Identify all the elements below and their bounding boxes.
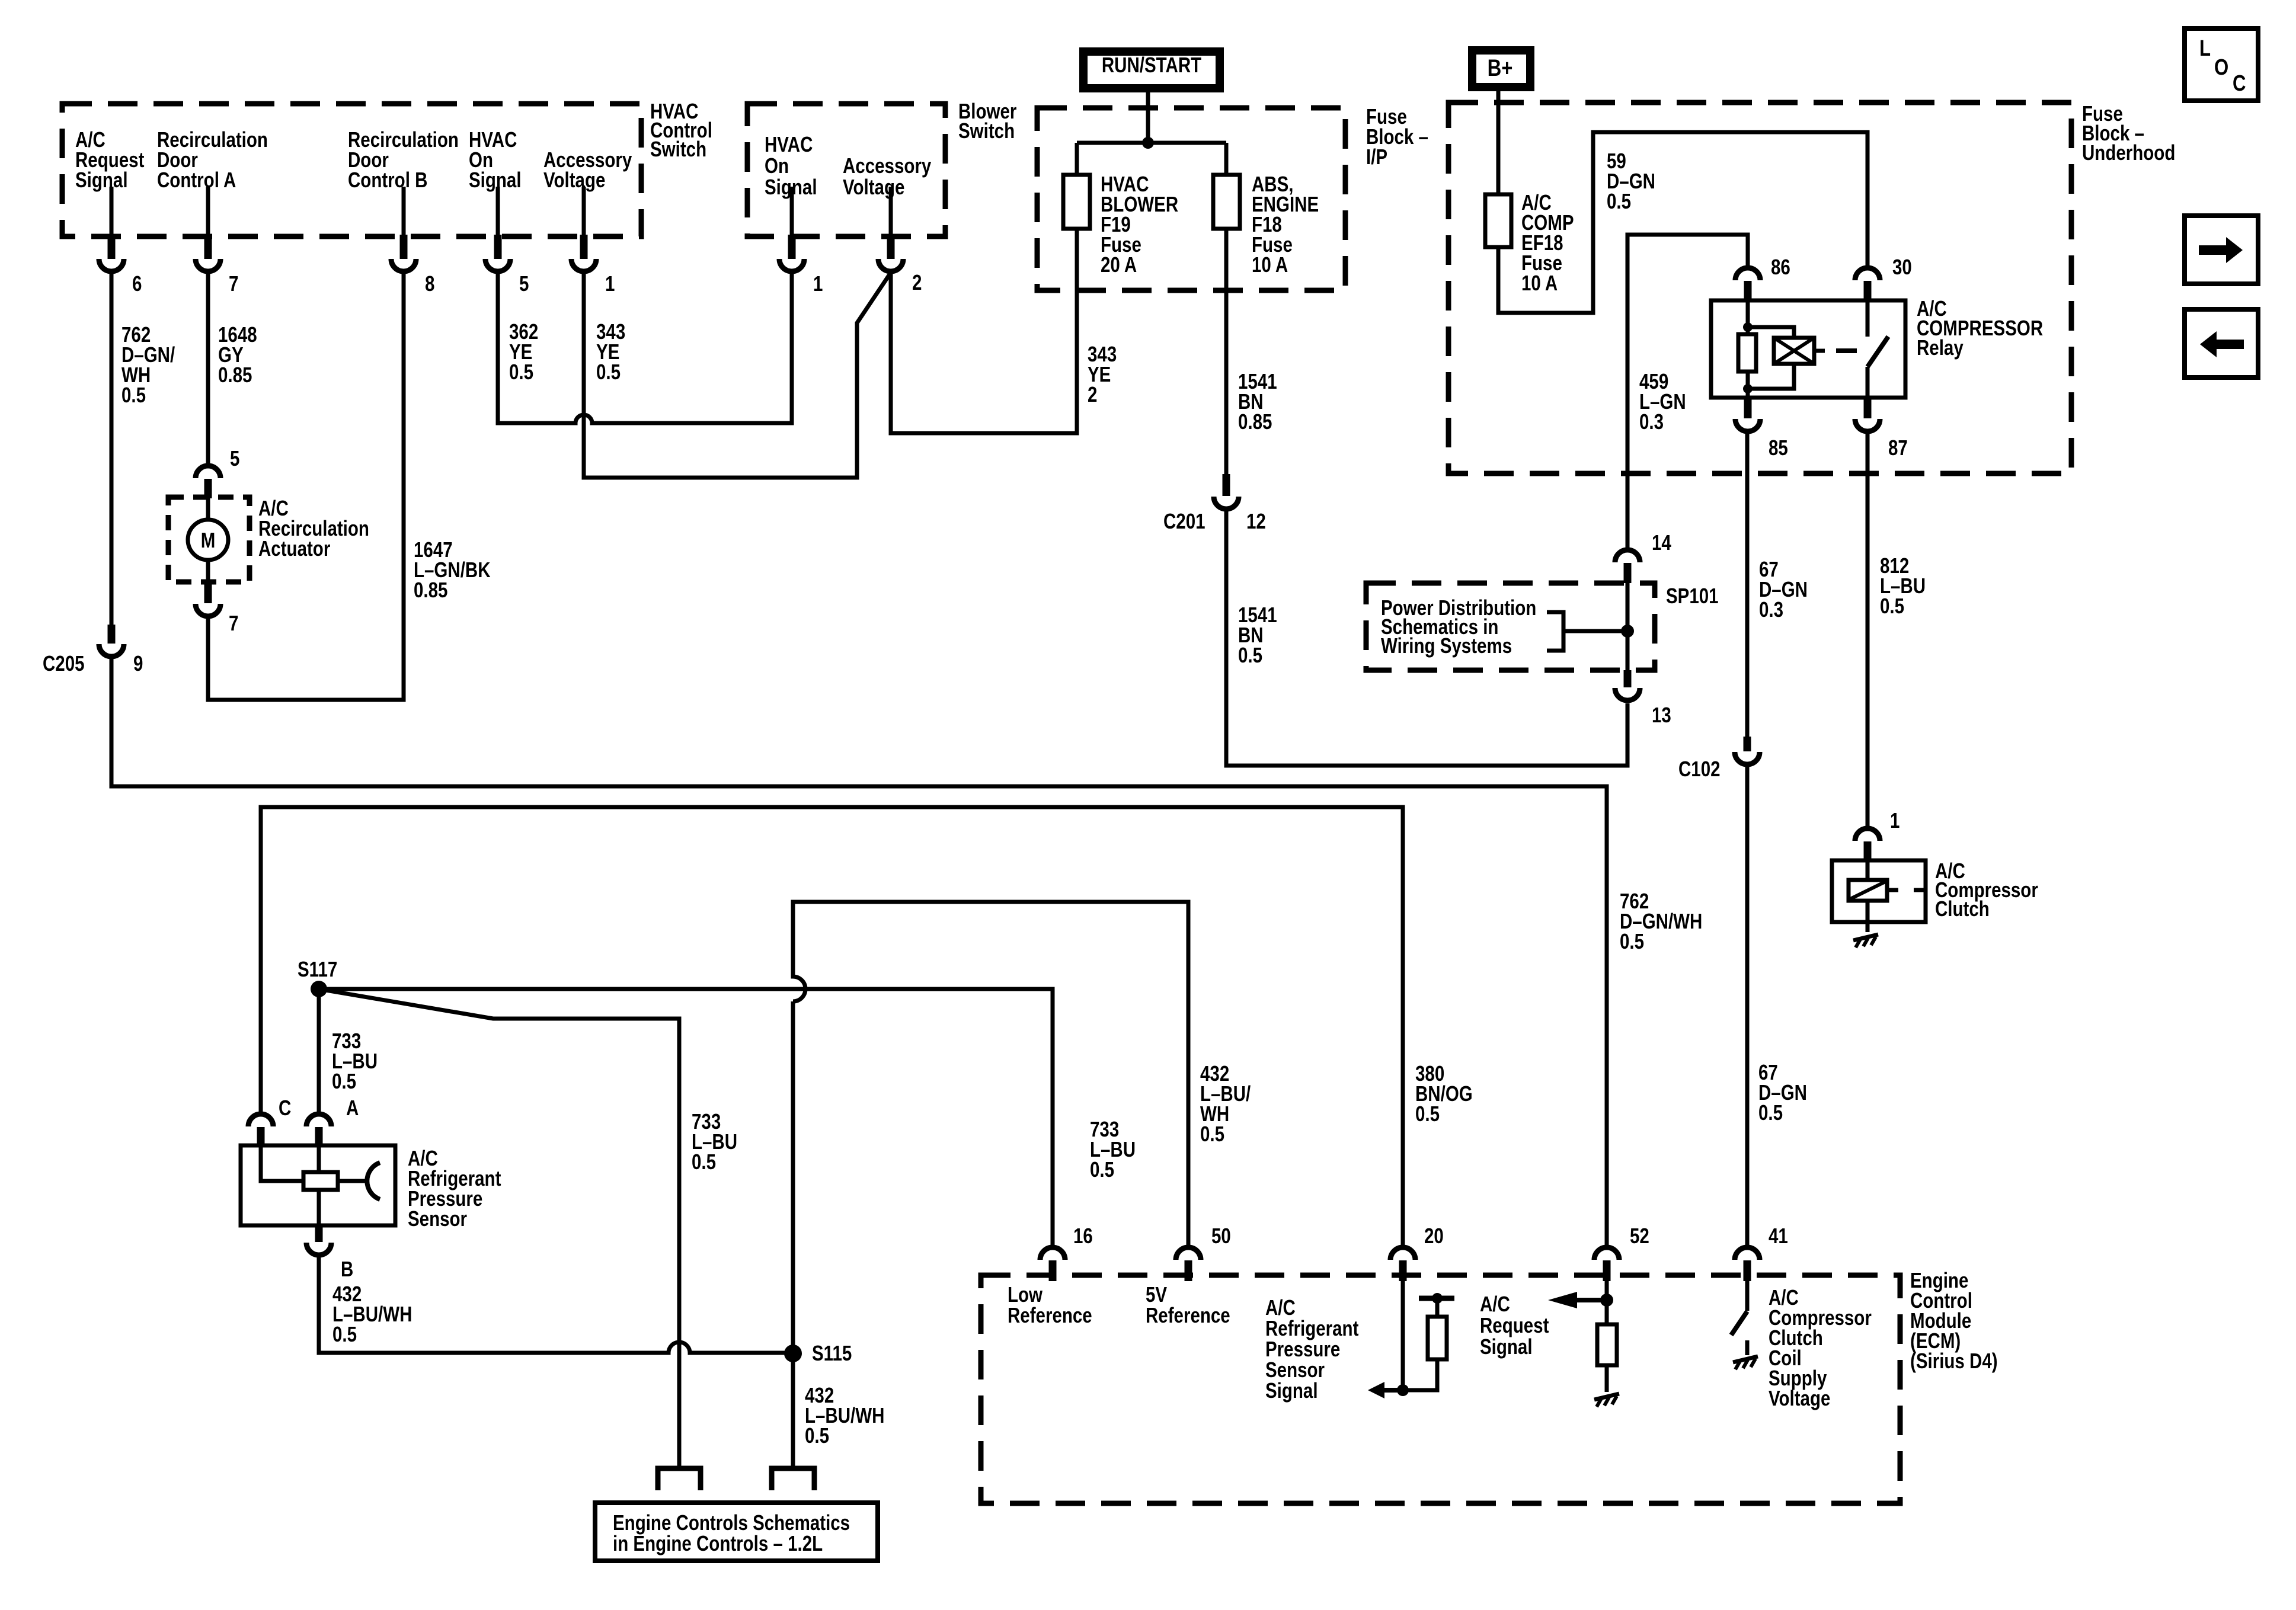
svg-text:A/C: A/C	[1480, 1292, 1510, 1315]
svg-text:C: C	[279, 1096, 291, 1119]
HVAC Control Switch box (dashed)	[62, 104, 641, 236]
label 762 D-GN/WH 0.5 (right)	[1620, 889, 1702, 953]
relay pin 87 connector	[1855, 398, 1908, 460]
label 1541 BN 0.85	[1238, 369, 1277, 433]
svg-text:16: 16	[1073, 1224, 1093, 1247]
Blower Switch box (dashed)	[747, 104, 945, 236]
connector C205 pin 9	[43, 625, 143, 676]
svg-text:5: 5	[519, 271, 529, 295]
off-page terminal right	[772, 1468, 814, 1490]
Engine Controls Schematics box	[595, 1503, 878, 1561]
left-arrow legend box	[2185, 309, 2258, 377]
junction dot RUN/START	[1142, 137, 1154, 149]
svg-text:0.5: 0.5	[1758, 1100, 1783, 1124]
svg-text:Signal: Signal	[469, 168, 522, 191]
svg-text:Request: Request	[1480, 1313, 1549, 1337]
svg-text:Accessory: Accessory	[843, 153, 932, 177]
svg-text:Relay: Relay	[1917, 335, 1964, 359]
clutch ground	[1853, 934, 1878, 948]
relay coil circuit	[1738, 300, 1794, 398]
svg-text:Actuator: Actuator	[258, 536, 330, 560]
fuse EF18 A/C COMP	[1485, 194, 1511, 247]
svg-text:SP101: SP101	[1666, 584, 1719, 607]
svg-text:0.5: 0.5	[1090, 1157, 1114, 1181]
Power Distribution label	[1381, 596, 1536, 657]
wire to fuse F18	[1224, 143, 1229, 175]
svg-text:1: 1	[813, 271, 823, 295]
ECM pin 41 internal switch	[1731, 1280, 1747, 1355]
wire 1648 GY pin7 to actuator	[206, 271, 210, 466]
svg-text:RUN/START: RUN/START	[1102, 53, 1201, 76]
svg-text:20: 20	[1424, 1224, 1444, 1247]
label 67 D-GN 0.5	[1758, 1060, 1807, 1124]
svg-text:1: 1	[1890, 808, 1900, 832]
ECM pin 52 ground	[1594, 1394, 1619, 1407]
svg-text:0.5: 0.5	[1238, 643, 1262, 667]
svg-text:0.5: 0.5	[1607, 189, 1631, 213]
fuse F19 HVAC BLOWER	[1063, 175, 1090, 229]
wire 432 L-BU/WH S115 to ECM50	[793, 902, 1188, 1353]
label 733 L-BU 0.5 (mid)	[692, 1109, 737, 1173]
svg-text:0.5: 0.5	[121, 383, 146, 406]
wire 343 YE 2 blower pin2 to fuse F19	[891, 271, 1077, 433]
HVAC switch pin 8 connector	[391, 187, 434, 296]
svg-text:Reference: Reference	[1008, 1303, 1092, 1327]
clutch coil	[1849, 860, 1926, 932]
svg-text:O: O	[2214, 55, 2228, 80]
svg-text:0.85: 0.85	[414, 578, 447, 601]
svg-text:1: 1	[605, 271, 615, 295]
wire F19 to box edge	[1075, 229, 1079, 290]
svg-text:HVAC: HVAC	[765, 132, 813, 156]
svg-text:S115: S115	[812, 1341, 852, 1365]
ECM box (dashed)	[981, 1275, 1900, 1503]
svg-text:0.5: 0.5	[509, 360, 533, 383]
svg-text:C: C	[2233, 71, 2246, 96]
wire 67 D-GN 0.5 C102 to ECM41	[1745, 764, 1750, 1247]
svg-text:0.5: 0.5	[1415, 1102, 1440, 1125]
wire 733 L-BU S117 to engine controls	[319, 989, 679, 1468]
label 432 L-BU/WH 0.5 (ECM50)	[1200, 1061, 1251, 1145]
svg-text:C205: C205	[43, 651, 85, 675]
ECM label	[1910, 1268, 1998, 1372]
wire 432 L-BU/WH sensor B to S115	[319, 1255, 793, 1353]
svg-text:9: 9	[133, 651, 143, 675]
svg-text:(Sirius D4): (Sirius D4)	[1910, 1349, 1998, 1372]
svg-text:Switch: Switch	[958, 119, 1015, 142]
wire 812 L-BU relay87 to clutch	[1866, 431, 1870, 828]
wire 1541 BN 0.5 C201 to SP101	[1226, 509, 1627, 766]
Blower switch pin 1 connector	[779, 187, 823, 296]
LOC legend box	[2185, 28, 2258, 101]
ECM A/C Request Signal label	[1480, 1292, 1549, 1358]
wire 733 L-BU S117 to ECM16	[319, 989, 1053, 1247]
RUN/START power tap box	[1083, 52, 1220, 88]
A/C Recirculation Actuator label	[258, 496, 369, 560]
A/C Refrigerant Pressure Sensor box	[241, 1145, 395, 1225]
svg-text:S117: S117	[298, 957, 337, 981]
Power Distribution box (dashed)	[1366, 583, 1655, 670]
ECM pin 16 connector	[1040, 1224, 1093, 1281]
ECM pin 41 connector	[1735, 1224, 1788, 1281]
A/C Recirculation Actuator box	[168, 497, 250, 582]
svg-text:2: 2	[1088, 382, 1097, 406]
svg-text:0.5: 0.5	[1200, 1122, 1224, 1145]
svg-text:I/P: I/P	[1366, 145, 1387, 168]
label 380 BN/OG 0.5	[1415, 1061, 1473, 1125]
ECM pin 50 connector	[1176, 1224, 1231, 1281]
clutch pin 1 connector	[1855, 808, 1900, 860]
svg-text:Voltage: Voltage	[543, 168, 605, 191]
svg-text:0.5: 0.5	[596, 360, 621, 383]
svg-text:10 A: 10 A	[1252, 252, 1288, 276]
svg-text:Control B: Control B	[348, 168, 427, 191]
splice SP101	[1621, 583, 1719, 670]
svg-text:20 A: 20 A	[1101, 252, 1137, 276]
svg-text:in Engine Controls – 1.2L: in Engine Controls – 1.2L	[613, 1531, 823, 1555]
svg-text:0.3: 0.3	[1639, 409, 1664, 433]
Fuse Block I/P label	[1366, 104, 1428, 168]
wire 459 L-GN relay 86 branch	[1627, 235, 1748, 550]
wire 762 D-GN/WH C205 to ECM 52	[111, 657, 1607, 1247]
Fuse Block Underhood label	[2082, 101, 2175, 164]
wire 1541 BN 0.85 F18 to C201	[1224, 229, 1229, 474]
svg-text:0.5: 0.5	[332, 1069, 356, 1093]
A/C Compressor Clutch label	[1935, 859, 2038, 920]
wire 380 BN/OG sensor C to ECM20	[261, 807, 1403, 1247]
svg-text:86: 86	[1771, 255, 1790, 279]
relay pin 86 connector	[1735, 255, 1790, 300]
ECM pin 52 internal	[1548, 1280, 1617, 1392]
svg-text:7: 7	[229, 271, 238, 295]
splice S115	[784, 1341, 852, 1468]
label 432 L-BU/WH 0.5 (S115)	[805, 1383, 884, 1447]
svg-text:0.5: 0.5	[692, 1150, 716, 1173]
Blower switch pin labels	[765, 132, 932, 199]
ECM pin 52 connector	[1594, 1224, 1649, 1281]
svg-text:Underhood: Underhood	[2082, 140, 2175, 164]
svg-text:10 A: 10 A	[1521, 271, 1558, 295]
svg-text:Wiring Systems: Wiring Systems	[1381, 633, 1512, 657]
actuator pin 5 connector	[196, 446, 239, 498]
sensor pin A connector	[306, 1096, 359, 1145]
relay pin 85 connector	[1735, 398, 1788, 460]
wire 733 L-BU S117 to sensor A	[317, 989, 321, 1114]
label 733 L-BU 0.5 (A)	[332, 1029, 378, 1093]
svg-text:Signal: Signal	[75, 168, 128, 191]
svg-text:0.5: 0.5	[805, 1423, 829, 1447]
HVAC switch pin 6 connector	[99, 187, 142, 296]
svg-text:B+: B+	[1488, 55, 1513, 81]
Fuse Block Underhood box (dashed)	[1448, 103, 2071, 473]
sensor pin C connector	[248, 1096, 291, 1145]
svg-text:5: 5	[230, 446, 239, 470]
svg-text:41: 41	[1769, 1224, 1788, 1247]
svg-text:Sensor: Sensor	[408, 1206, 467, 1230]
svg-text:14: 14	[1652, 530, 1671, 554]
svg-text:Switch: Switch	[650, 137, 706, 161]
A/C Compressor Clutch box	[1832, 860, 1926, 922]
wire 762 D-GN/WH pin6 to C205	[110, 271, 114, 626]
right-arrow legend box	[2185, 216, 2258, 284]
svg-text:M: M	[201, 528, 216, 552]
label 343 YE 2	[1088, 342, 1117, 406]
label A/C COMP EF18 Fuse 10 A	[1521, 190, 1574, 295]
wire B+ to fuse EF18	[1496, 87, 1501, 194]
label 762 D-GN/WH 0.5	[121, 322, 175, 406]
label 1647 L-GN/BK 0.85	[414, 537, 491, 601]
svg-text:Signal: Signal	[1480, 1334, 1533, 1358]
wire SP101 pin14 stub	[1615, 530, 1671, 583]
svg-text:Control A: Control A	[157, 168, 236, 191]
svg-text:52: 52	[1630, 1224, 1649, 1247]
off-page terminal left	[658, 1468, 701, 1490]
svg-text:8: 8	[425, 271, 434, 295]
svg-text:85: 85	[1769, 436, 1788, 459]
label 1648 GY 0.85	[218, 322, 257, 386]
label ABS ENGINE F18 Fuse 10 A	[1252, 172, 1319, 276]
label 362 YE 0.5	[509, 319, 538, 383]
relay switch	[1868, 300, 1888, 398]
ECM 5V Reference label	[1146, 1282, 1230, 1327]
HVAC Control Switch label	[650, 99, 712, 161]
svg-text:0.85: 0.85	[218, 363, 252, 386]
label HVAC BLOWER F19 Fuse 20 A	[1101, 172, 1178, 276]
Fuse Block I/P box (dashed)	[1037, 108, 1345, 290]
label 432 L-BU/WH 0.5 (B)	[332, 1282, 412, 1346]
connector C201 pin 12	[1163, 474, 1266, 533]
SP101 pin 13 connector	[1615, 670, 1671, 727]
relay coil X box	[1774, 338, 1825, 364]
label 459 L-GN 0.3	[1639, 369, 1686, 433]
svg-text:Reference: Reference	[1146, 1303, 1230, 1327]
svg-text:0.5: 0.5	[1880, 594, 1904, 617]
B+ power tap box	[1472, 50, 1530, 87]
sensor internals	[261, 1145, 380, 1225]
actuator motor M	[188, 497, 228, 582]
actuator pin 7 connector	[196, 583, 238, 635]
svg-text:0.3: 0.3	[1759, 597, 1783, 621]
A/C COMPRESSOR Relay box	[1711, 300, 1905, 398]
svg-text:Signal: Signal	[1265, 1378, 1318, 1402]
relay pin 30 connector	[1855, 255, 1912, 300]
svg-text:A: A	[346, 1096, 359, 1119]
svg-text:Clutch: Clutch	[1935, 897, 1990, 920]
svg-text:2: 2	[912, 270, 922, 294]
svg-text:C201: C201	[1163, 509, 1205, 533]
label 67 D-GN 0.3	[1759, 557, 1808, 621]
svg-text:87: 87	[1888, 436, 1908, 459]
HVAC switch pin 7 connector	[196, 187, 238, 296]
svg-text:On: On	[765, 153, 789, 177]
wire RUN/START feed	[1077, 92, 1226, 143]
svg-text:L: L	[2199, 36, 2211, 61]
ECM A/C Refrigerant Pressure Sensor Signal label	[1265, 1295, 1358, 1402]
svg-text:0.5: 0.5	[1620, 929, 1644, 953]
HVAC switch pin 5 connector	[485, 187, 529, 296]
ECM pin 41 ground	[1733, 1356, 1758, 1369]
A/C Refrigerant Pressure Sensor label	[408, 1146, 501, 1230]
wire 343 YE pin1 to blower pin2	[584, 271, 891, 478]
label 733 L-BU 0.5 (ECM16)	[1090, 1117, 1136, 1181]
relay link dash	[1836, 348, 1857, 353]
svg-text:12: 12	[1246, 509, 1266, 533]
Engine Controls Schematics label	[613, 1510, 850, 1555]
label 343 YE 0.5	[596, 319, 625, 383]
svg-text:7: 7	[229, 611, 238, 635]
Power Distribution bracket	[1547, 612, 1627, 651]
wire 67 D-GN 0.3 relay85 to C102	[1745, 431, 1750, 737]
ECM pin 20 connector	[1390, 1224, 1444, 1281]
label 812 L-BU 0.5	[1880, 553, 1926, 617]
ECM pin 20 internal	[1368, 1280, 1454, 1398]
HVAC switch pin labels	[75, 127, 632, 191]
wire to fuse F19	[1075, 143, 1079, 175]
svg-text:C102: C102	[1678, 757, 1721, 780]
svg-text:0.85: 0.85	[1238, 409, 1272, 433]
fuse F18 ABS ENGINE	[1213, 175, 1240, 229]
sensor pin B connector	[306, 1225, 353, 1281]
svg-text:50: 50	[1211, 1224, 1231, 1247]
svg-text:30: 30	[1892, 255, 1912, 279]
svg-text:B: B	[341, 1257, 353, 1281]
ECM Low Reference label	[1008, 1282, 1092, 1327]
svg-text:6: 6	[132, 271, 142, 295]
A/C COMPRESSOR Relay label	[1917, 296, 2043, 359]
label 59 D-GN 0.5	[1607, 149, 1655, 213]
connector C102	[1678, 737, 1760, 781]
HVAC switch pin 1 connector	[571, 187, 615, 296]
svg-text:Voltage: Voltage	[1769, 1386, 1830, 1410]
svg-text:13: 13	[1652, 703, 1671, 726]
svg-text:0.5: 0.5	[332, 1322, 357, 1346]
Blower switch pin 2 connector	[878, 187, 922, 295]
Blower Switch label	[958, 99, 1017, 142]
splice S117	[298, 957, 337, 997]
wire 59 D-GN 0.5 EF18 to relay 30	[1498, 132, 1868, 313]
svg-text:Voltage: Voltage	[843, 175, 904, 199]
wire 1647 L-GN/BK actuator to pin8	[208, 271, 404, 700]
wire 362 YE pin5 to blower pin1	[498, 271, 792, 423]
ECM A/C Compressor Clutch Coil Supply Voltage label	[1769, 1285, 1872, 1410]
label 1541 BN 0.5	[1238, 603, 1277, 667]
